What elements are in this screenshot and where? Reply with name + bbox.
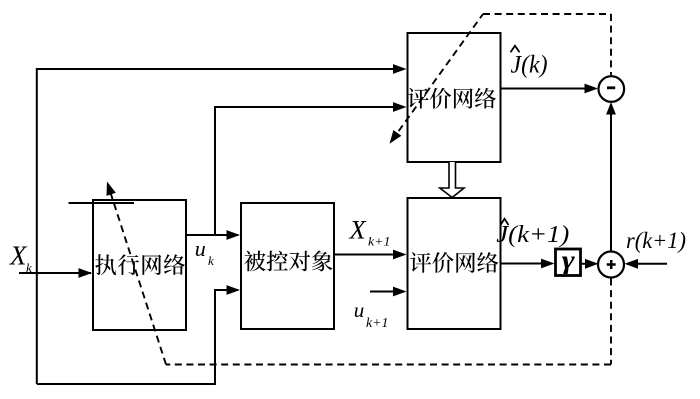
svg-text:k: k [208,253,214,268]
box plant 被控对象 [241,203,334,329]
arrowhead J(k) into minus junction [585,84,599,94]
gamma box [556,249,581,276]
svg-text:u: u [195,236,206,261]
wire X_k+1 plant to bottom critic [334,254,404,256]
arrowhead J(k+1) into gamma box [541,259,555,269]
svg-text:r(k+1): r(k+1) [626,228,686,254]
svg-text:k+1: k+1 [368,234,390,249]
svg-text:u: u [354,298,365,322]
wire J(k) output to minus junction [501,88,596,90]
dashed wire down to minus junction [610,14,612,75]
arrowhead X_k+1 into bottom critic [393,250,407,260]
svg-text:X: X [349,215,368,245]
box action network 执行网络 [93,200,186,330]
minus sign [607,86,615,89]
arrowhead dashed backprop (action net, up) [107,182,116,196]
dashed wire top horizontal [483,13,611,15]
wire X_k input [19,272,91,274]
weight-adjust line on action network [69,202,135,204]
svg-text:k: k [26,260,32,275]
svg-text:J(k+1): J(k+1) [496,222,569,248]
wire u_k+1 into bottom critic [370,291,404,293]
arrowhead X_k into action net [79,268,93,278]
arrowhead r(k+1) into plus junction [625,259,639,269]
arrowhead gamma out into plus junction [585,259,599,269]
hollow arrow from top critic down to bottom critic [440,162,464,198]
wire X_k feedback: up left side to top critic [37,69,404,384]
wire r(k+1) input [627,263,667,265]
box critic network bottom 评价网络 [408,198,501,329]
wire gamma to plus junction [581,263,595,265]
wire plus junction up to minus junction [610,104,612,252]
wire X_k feedback: bottom to plant second input [37,290,238,384]
text 评价网络 top [408,88,496,109]
box critic network top 评价网络 [408,33,501,162]
dashed wire plus junction down [610,279,612,365]
arrowhead up into minus junction [606,102,616,115]
arrowhead u_k+1 into bottom critic [393,287,407,297]
text 被控对象 [244,251,332,272]
arrowhead feedback into plant [227,285,241,295]
dashed backprop line through action net [109,188,166,365]
minus junction circle [599,76,625,102]
wire u_k up to top critic [215,107,404,235]
arrowhead u_k into plant [227,230,241,240]
dashed backprop line through top critic [392,14,483,141]
svg-text:γ: γ [562,246,575,275]
plus sign [607,260,616,269]
dashed wire bottom horizontal [166,364,611,366]
arrowhead X_k into top critic [393,64,407,74]
plus junction circle [598,252,624,278]
svg-text:k+1: k+1 [366,315,388,330]
wire u_k from action net to plant [186,234,238,236]
arrowhead dashed backprop (top critic, down-left) [390,130,402,144]
text 执行网络 [95,254,185,275]
svg-text:J(k): J(k) [511,50,548,79]
wire J(k+1) output to gamma box [501,263,551,265]
text 评价网络 bottom [410,252,498,273]
arrowhead u_k into top critic [393,102,407,112]
